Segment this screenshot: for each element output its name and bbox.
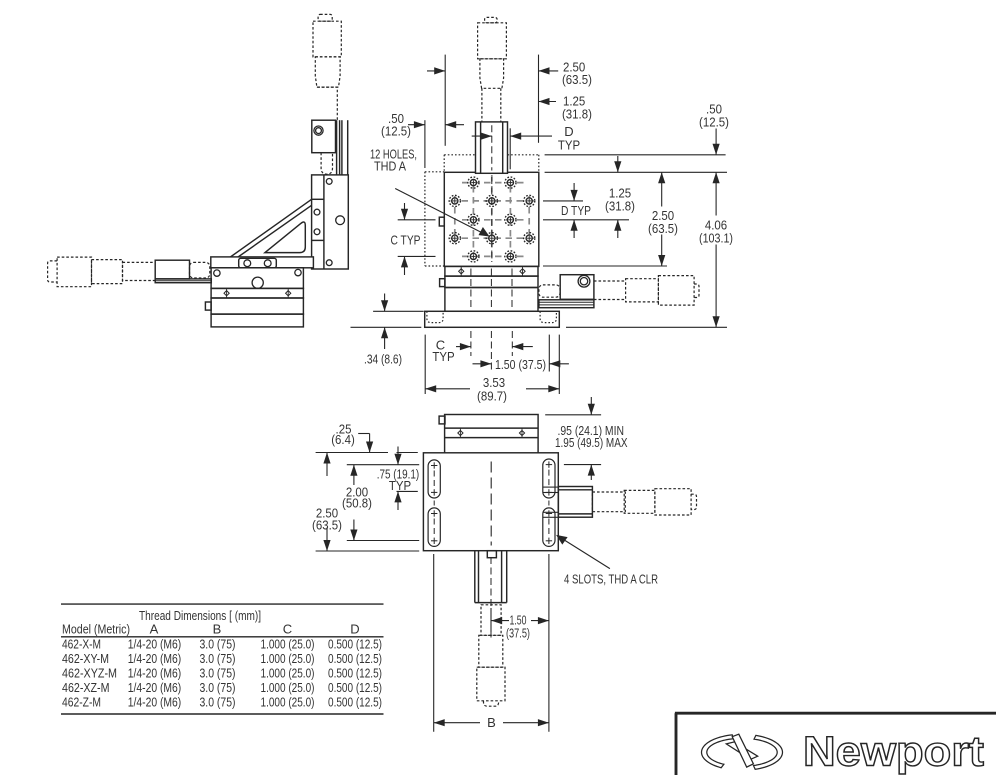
dimension C TYP bottom: [432, 338, 532, 364]
side view horizontal micrometer (phantom): [48, 257, 156, 287]
svg-text:1/4-20 (M6): 1/4-20 (M6): [128, 651, 182, 666]
svg-text:1/4-20 (M6): 1/4-20 (M6): [128, 637, 182, 652]
svg-text:0.500 (12.5): 0.500 (12.5): [328, 680, 382, 695]
front view stage plate: [444, 172, 539, 266]
dimension 2.00 (50.8): [342, 465, 372, 541]
svg-text:TYP: TYP: [432, 349, 454, 364]
svg-text:1/4-20 (M6): 1/4-20 (M6): [128, 680, 182, 695]
front view center axis line: [491, 125, 493, 262]
svg-text:(63.5): (63.5): [648, 221, 678, 236]
logo box border: [675, 713, 996, 775]
dimension 1.50 (37.5) bottom view: [491, 608, 549, 641]
front view diamond band: [445, 266, 538, 276]
side view stage diamond band: [211, 288, 303, 298]
front view plate left tab: [439, 217, 444, 226]
front view carriage band: [440, 276, 538, 311]
svg-text:D TYP: D TYP: [561, 203, 591, 218]
svg-text:D: D: [350, 622, 359, 637]
svg-text:(63.5): (63.5): [312, 518, 342, 533]
svg-text:3.0 (75): 3.0 (75): [200, 666, 236, 681]
svg-text:462-XZ-M: 462-XZ-M: [62, 680, 110, 695]
bottom view right micrometer block: [558, 487, 592, 518]
front view X micrometer barrel and knob (phantom): [626, 276, 699, 306]
svg-text:.34 (8.6): .34 (8.6): [364, 352, 402, 367]
side view mounting bar: [155, 279, 211, 283]
dimension .50 (12.5) top right: [699, 102, 729, 155]
svg-text:3.0 (75): 3.0 (75): [200, 651, 236, 666]
svg-text:(103.1): (103.1): [699, 231, 733, 246]
svg-text:(12.5): (12.5): [381, 124, 411, 139]
svg-text:462-XY-M: 462-XY-M: [62, 651, 109, 666]
thread dimensions table: [61, 604, 384, 714]
side view micrometer clamp block: [312, 120, 336, 153]
side view bracket triangular cutout: [265, 222, 305, 253]
front view 12 threaded holes: [449, 177, 535, 262]
bottom view right micrometer (phantom): [592, 489, 696, 515]
svg-text:3.0 (75): 3.0 (75): [200, 637, 236, 652]
front view X micrometer spindle phantom: [539, 281, 626, 300]
dimension .95 MIN 1.95 MAX: [545, 397, 628, 480]
dimension D TYP right: [561, 183, 591, 238]
svg-text:Model (Metric): Model (Metric): [62, 622, 130, 637]
dimension .75 (19.1) TYP: [377, 447, 420, 511]
svg-text:0.500 (12.5): 0.500 (12.5): [328, 637, 382, 652]
front view column centerlines: [471, 269, 512, 312]
front view base flange: [425, 311, 560, 327]
bottom view slots: [428, 459, 555, 546]
side view spindle (phantom): [321, 153, 332, 175]
bottom view carriage top: [439, 415, 538, 454]
dimension 1.25 (31.8) right: [605, 156, 635, 238]
svg-text:3.0 (75): 3.0 (75): [200, 695, 236, 710]
svg-text:B: B: [487, 715, 496, 730]
front view lower extension lines: [425, 331, 559, 394]
dimension 1.25 (31.8) top: [539, 94, 592, 122]
svg-text:0.500 (12.5): 0.500 (12.5): [328, 695, 382, 710]
side view micrometer mount block: [155, 260, 189, 279]
Newport logo mark: [702, 734, 783, 769]
svg-text:(31.8): (31.8): [605, 199, 635, 214]
svg-text:TYP: TYP: [389, 478, 411, 493]
side view angle bracket diagonals: [230, 199, 312, 257]
svg-text:C: C: [283, 622, 292, 637]
svg-text:1.000 (25.0): 1.000 (25.0): [261, 695, 315, 710]
svg-text:462-X-M: 462-X-M: [62, 637, 101, 652]
svg-text:1/4-20 (M6): 1/4-20 (M6): [128, 666, 182, 681]
label 4 SLOTS THD A CLR with leader: [556, 535, 658, 587]
bottom view micrometer block edge lines through slot: [543, 487, 558, 517]
svg-text:3.0 (75): 3.0 (75): [200, 680, 236, 695]
dimension B: [434, 554, 549, 732]
dimension C TYP left: [391, 203, 436, 275]
bottom view down micrometer barrel and knob (phantom): [477, 557, 505, 706]
dimension .34 (8.6): [351, 294, 424, 367]
svg-text:(63.5): (63.5): [562, 72, 592, 87]
svg-text:B: B: [213, 622, 222, 637]
svg-text:0.500 (12.5): 0.500 (12.5): [328, 651, 382, 666]
svg-text:1.000 (25.0): 1.000 (25.0): [261, 637, 315, 652]
dimension 4.06 (103.1) right: [699, 172, 733, 327]
svg-text:4 SLOTS, THD A CLR: 4 SLOTS, THD A CLR: [564, 572, 658, 587]
front view X micrometer mounting bar: [539, 300, 594, 308]
svg-text:462-XYZ-M: 462-XYZ-M: [62, 666, 117, 681]
front view right extension lines: [543, 155, 727, 327]
svg-text:(12.5): (12.5): [699, 115, 729, 130]
bottom view center axis: [490, 462, 492, 546]
svg-text:(50.8): (50.8): [342, 496, 372, 511]
svg-text:(6.4): (6.4): [331, 432, 355, 447]
dimension .50 (12.5) left: [381, 55, 464, 168]
dimension 2.50 (63.5) top: [427, 55, 592, 143]
dimension D TYP top: [472, 124, 580, 169]
svg-text:1/4-20 (M6): 1/4-20 (M6): [128, 695, 182, 710]
svg-text:(37.5): (37.5): [506, 626, 530, 641]
dimension 2.50 (63.5) right: [648, 172, 678, 266]
front view X micrometer mount block: [560, 275, 594, 300]
side view stage base blocks: [205, 298, 303, 327]
side view vertical stage body: [312, 175, 349, 269]
svg-text:C TYP: C TYP: [391, 233, 421, 248]
svg-text:462-Z-M: 462-Z-M: [62, 695, 101, 710]
svg-text:0.500 (12.5): 0.500 (12.5): [328, 666, 382, 681]
svg-text:(89.7): (89.7): [477, 389, 507, 404]
svg-text:1.50 (37.5): 1.50 (37.5): [495, 357, 546, 372]
dimension .25 (6.4): [331, 422, 373, 453]
front view phantom shifted-left plate (dotted): [425, 172, 444, 266]
svg-text:(31.8): (31.8): [562, 107, 592, 122]
dimension 2.50 (63.5) bottom view: [312, 453, 342, 552]
front view vertical micrometer (phantom): [478, 17, 507, 122]
svg-text:1.000 (25.0): 1.000 (25.0): [261, 680, 315, 695]
side view vertical rails: [337, 120, 348, 175]
bottom view left extension lines: [316, 453, 420, 552]
bottom view down micrometer block: [475, 551, 507, 603]
side view bracket base plate: [211, 257, 314, 268]
label 12 HOLES THD A with leader: [370, 147, 490, 237]
side view spindle phantom at stage: [190, 262, 210, 278]
svg-text:A: A: [150, 622, 159, 637]
svg-text:Newport: Newport: [803, 728, 984, 775]
side view stage carriage layer: [211, 268, 303, 289]
svg-text:TYP: TYP: [558, 138, 580, 153]
side view vertical micrometer (phantom): [313, 14, 341, 120]
front view plate hole centerlines: [451, 175, 536, 263]
front view micrometer clamp block: [476, 122, 508, 173]
svg-text:THD A: THD A: [374, 159, 406, 174]
bottom view main square: [423, 453, 558, 551]
svg-text:1.000 (25.0): 1.000 (25.0): [261, 666, 315, 681]
svg-text:1.000 (25.0): 1.000 (25.0): [261, 651, 315, 666]
front view phantom shifted-up plate (dotted): [444, 155, 539, 173]
svg-text:1.95 (49.5) MAX: 1.95 (49.5) MAX: [555, 435, 628, 450]
dimension 3.53 (89.7): [425, 375, 559, 404]
dimension 1.50 (37.5) front: [473, 357, 569, 372]
